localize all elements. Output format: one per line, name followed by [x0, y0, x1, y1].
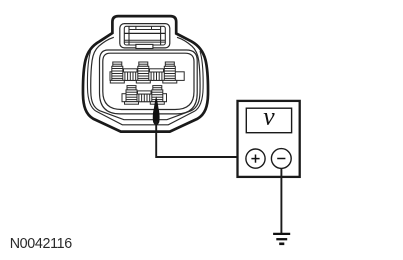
ground symbol — [273, 233, 290, 235]
latch right rail — [160, 26, 162, 45]
terminal 2 top row — [136, 62, 150, 83]
latch divider 1 — [124, 32, 165, 34]
terminal 5 bottom row — [150, 86, 164, 105]
bridge 3 bottom row — [138, 91, 152, 102]
pin row 1 base strip — [110, 72, 184, 81]
latch top half line — [129, 29, 161, 31]
wire from - terminal to ground — [280, 168, 282, 233]
bridge 1 top row — [124, 69, 138, 81]
connector J1 outer housing outline — [83, 16, 208, 132]
voltmeter U1 body — [238, 101, 300, 177]
latch divider 2 — [124, 39, 165, 41]
latch outer frame — [120, 24, 170, 48]
latch top tick 2 — [151, 26, 153, 29]
bridge 2 top row — [150, 69, 164, 81]
terminal 4 bottom row — [125, 86, 139, 105]
connector cavity seal ring outer — [100, 50, 198, 114]
voltmeter + terminal — [246, 149, 265, 168]
figure number label — [10, 236, 72, 252]
pin row 2 base strip — [122, 94, 167, 102]
latch top tick 1 — [135, 26, 137, 29]
terminal 3 top row — [163, 62, 177, 83]
latch divider 3 — [124, 41, 165, 43]
connector inner housing line b — [87, 51, 203, 125]
terminal 1 top row — [110, 62, 124, 83]
voltmeter display window — [246, 108, 291, 133]
connector J1 inner housing line — [91, 37, 200, 119]
latch bottom tab — [136, 44, 153, 48]
voltmeter V label — [264, 113, 275, 125]
voltmeter - terminal — [271, 149, 291, 169]
probe arrow into terminal 5 — [153, 96, 160, 125]
latch inner frame — [124, 26, 165, 45]
connector cavity seal ring inner — [103, 53, 194, 109]
latch left rail — [128, 26, 130, 45]
wire from probe to voltmeter + — [156, 121, 246, 157]
